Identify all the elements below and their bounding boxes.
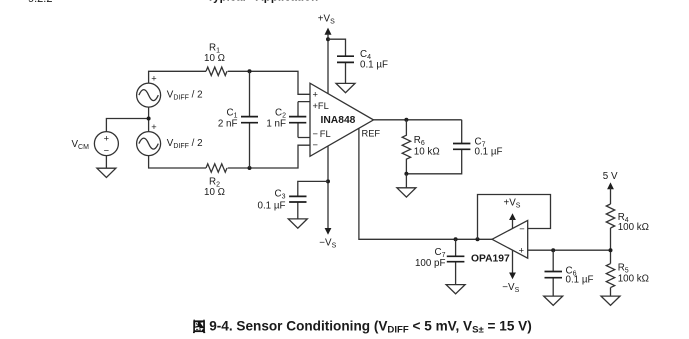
ground under C7b — [446, 285, 465, 294]
capacitor C3 — [289, 181, 328, 219]
svg-text:0.1 µF: 0.1 µF — [566, 275, 594, 286]
svg-text:100 pF: 100 pF — [415, 258, 446, 269]
ground under C4 — [336, 83, 355, 92]
capacitor C7b 100pF — [447, 239, 465, 284]
source VDIFF/2 top — [137, 74, 161, 108]
svg-text:C3: C3 — [275, 188, 286, 200]
wire R5 to ground — [610, 288, 612, 297]
svg-text:−: − — [519, 224, 524, 234]
supply -VS OPA wire — [512, 250, 514, 273]
svg-text:Typical: Typical — [207, 0, 246, 3]
svg-text:10 Ω: 10 Ω — [204, 53, 225, 64]
svg-text:−VS: −VS — [502, 282, 519, 294]
wire 5V to R4 — [610, 188, 612, 204]
supply +VS arrow — [325, 28, 332, 35]
source VCM — [94, 132, 118, 156]
wire bottom rail right — [228, 145, 310, 168]
svg-text:− FL: − FL — [313, 129, 331, 139]
node C6 — [551, 248, 555, 252]
svg-text:+: + — [104, 134, 109, 144]
wire VCM top to mid node — [106, 119, 148, 132]
resistor R5 — [606, 264, 614, 288]
wire INA848 output — [374, 119, 462, 121]
op-amp U2 OPA197 — [492, 220, 528, 258]
wire feedback loop — [478, 195, 551, 240]
capacitor C1 — [241, 71, 258, 168]
svg-text:10 kΩ: 10 kΩ — [414, 146, 440, 157]
node C7b on REF wire — [454, 237, 458, 241]
svg-text:+VS: +VS — [318, 13, 335, 25]
svg-text:+VS: +VS — [504, 197, 521, 209]
source VDIFF/2 bottom — [137, 122, 161, 156]
svg-text:2 nF: 2 nF — [218, 119, 238, 130]
svg-text:0.1 µF: 0.1 µF — [360, 59, 388, 70]
svg-text:INA848: INA848 — [321, 115, 356, 126]
resistor R4 — [606, 204, 614, 228]
wire VCM bottom to ground — [105, 155, 107, 168]
svg-text:R6: R6 — [414, 135, 425, 147]
svg-text:+: + — [313, 90, 318, 100]
supply 5V arrow — [607, 182, 614, 189]
node output R6 — [404, 118, 408, 122]
supply -VS wire from INA848 — [327, 146, 329, 228]
capacitor C2 — [289, 102, 310, 138]
node divider — [609, 248, 613, 252]
svg-text:100 kΩ: 100 kΩ — [618, 274, 649, 285]
node feedback on REF wire — [476, 237, 480, 241]
svg-text:−: − — [104, 146, 109, 156]
svg-text:100 kΩ: 100 kΩ — [618, 222, 649, 233]
op-amp U1 INA848 — [310, 83, 374, 156]
wire bottom rail left — [149, 155, 206, 168]
svg-text:REF: REF — [362, 128, 381, 138]
cropped heading text top edge — [28, 0, 318, 5]
capacitor C6 — [545, 250, 563, 296]
svg-text:VCM: VCM — [72, 139, 90, 151]
svg-text:−VS: −VS — [319, 238, 336, 250]
svg-text:−: − — [313, 140, 318, 150]
svg-text:1 nF: 1 nF — [266, 119, 286, 130]
svg-text:OPA197: OPA197 — [471, 253, 510, 264]
capacitor C7 — [406, 120, 470, 174]
wire between sources — [148, 107, 150, 132]
wire REF to OPA197 output — [359, 128, 492, 239]
node -VS C3 — [326, 179, 330, 183]
supply -VS OPA arrow — [509, 273, 516, 280]
svg-text:+: + — [151, 74, 156, 84]
caption figure glyph — [193, 320, 205, 333]
node mid sources — [147, 117, 151, 121]
wire R6 to ground — [405, 174, 407, 188]
ground under C6 — [544, 296, 563, 305]
ground under C3 — [288, 219, 307, 228]
wire R4 to R5 — [610, 228, 612, 264]
svg-text:+: + — [151, 122, 156, 132]
svg-text:+FL: +FL — [313, 101, 329, 111]
supply +VS OPA arrow — [509, 213, 516, 220]
capacitor C4 — [328, 39, 354, 83]
resistor R6 — [402, 120, 410, 174]
svg-text:+: + — [519, 246, 524, 256]
resistor R1 — [206, 67, 227, 75]
svg-text:10 Ω: 10 Ω — [204, 187, 225, 198]
node R6 bottom — [404, 172, 408, 176]
svg-text:9-4. Sensor Conditioning (VDIF: 9-4. Sensor Conditioning (VDIFF < 5 mV, … — [209, 319, 532, 336]
node +VS C4 — [326, 37, 330, 41]
svg-text:VDIFF / 2: VDIFF / 2 — [167, 90, 203, 102]
svg-text:Application: Application — [256, 0, 319, 3]
wire OPA + input to divider — [528, 249, 611, 251]
supply -VS arrow — [325, 228, 332, 235]
svg-text:9.2.2: 9.2.2 — [28, 0, 52, 5]
svg-text:0.1 µF: 0.1 µF — [475, 146, 503, 157]
svg-text:0.1 µF: 0.1 µF — [258, 200, 286, 211]
ground under R6 — [397, 188, 416, 197]
wire +VS to op-amp — [327, 34, 329, 94]
ground under VCM — [97, 168, 116, 177]
wire top rail right — [228, 71, 310, 94]
ground under R5 — [601, 296, 620, 305]
wire top rail left — [149, 71, 206, 83]
wire +VS OPA — [512, 219, 514, 229]
resistor R2 — [206, 164, 227, 172]
svg-text:5 V: 5 V — [603, 171, 618, 182]
node top rail C1 — [248, 69, 252, 73]
svg-text:VDIFF / 2: VDIFF / 2 — [167, 138, 203, 150]
node bottom rail C1 — [248, 166, 252, 170]
